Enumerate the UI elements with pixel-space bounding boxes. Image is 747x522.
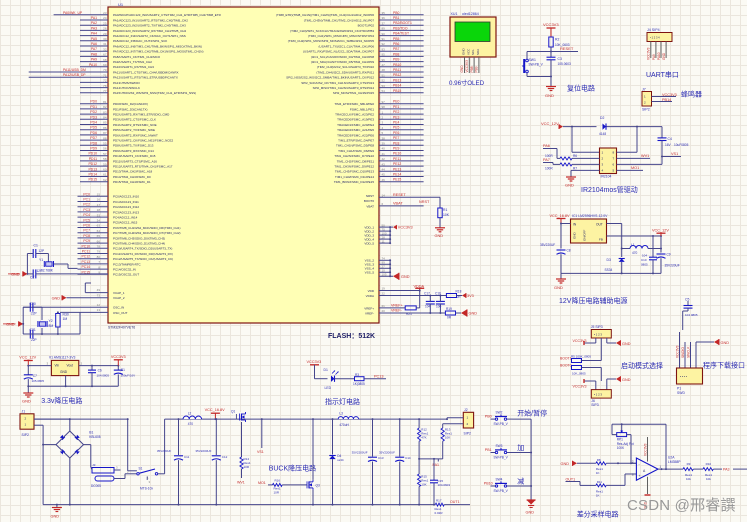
power VCC3V3 3v3 output: [111, 355, 126, 365]
svg-text:PB10: PB10: [393, 63, 401, 67]
IC V1 AMS1117 body: [51, 360, 78, 375]
svg-text:35V230UF: 35V230UF: [157, 449, 172, 453]
svg-text:32: 32: [103, 47, 107, 51]
svg-text:GND: GND: [662, 52, 666, 60]
wire pin PB8: [379, 52, 424, 56]
svg-text:VBAT: VBAT: [366, 204, 374, 208]
wire pin VREF-: [379, 309, 445, 314]
svg-text:PD3/USART2_CTS/FSMC_CLK: PD3/USART2_CTS/FSMC_CLK: [113, 118, 156, 122]
ground arrow right of R19: [461, 309, 477, 316]
svg-text:49: 49: [97, 288, 101, 292]
svg-text:VCC3V3: VCC3V3: [573, 339, 587, 343]
svg-text:90: 90: [382, 32, 386, 36]
svg-text:54: 54: [382, 89, 386, 93]
svg-text:FB: FB: [599, 238, 603, 242]
svg-text:106: 106: [436, 305, 442, 309]
svg-text:12: 12: [97, 303, 101, 307]
net label PB0: [485, 415, 492, 419]
ground reset circuit: [545, 87, 556, 99]
svg-text:VDDA: VDDA: [366, 294, 374, 298]
svg-text:SWCLK: SWCLK: [686, 346, 690, 358]
svg-text:TIM4_ETR/FSMC_NBL0/PE0: TIM4_ETR/FSMC_NBL0/PE0: [334, 102, 374, 106]
svg-text:GND: GND: [51, 515, 60, 519]
svg-text:1: 1: [660, 465, 662, 469]
wire OUT elbow: [607, 224, 622, 249]
svg-text:PB9: PB9: [393, 58, 400, 62]
svg-text:SWDIO: SWDIO: [681, 347, 685, 358]
svg-text:PA0/WKUP/ADC123_IN0/USART2_CTS: PA0/WKUP/ADC123_IN0/USART2_CTS/TIM2_CH1_…: [113, 13, 222, 17]
capacitor C15: [430, 459, 450, 506]
svg-text:VCC3V3: VCC3V3: [643, 443, 647, 456]
watermark CSDN @邢睿譔: [627, 494, 736, 515]
svg-text:TIM1_CH3/FSMC_D10/PE13: TIM1_CH3/FSMC_D10/PE13: [335, 170, 375, 174]
svg-text:VCC_12V: VCC_12V: [541, 121, 559, 126]
capacitor C1: [27, 244, 48, 259]
capacitor C2: [27, 269, 108, 280]
wire pin PE10: [379, 152, 424, 156]
svg-text:ss34: ss34: [337, 458, 344, 462]
svg-text:开始/暂停: 开始/暂停: [517, 408, 547, 417]
svg-text:J5 SIP3: J5 SIP3: [591, 325, 603, 329]
svg-text:PD0: PD0: [90, 100, 97, 104]
svg-text:PA3: PA3: [91, 26, 97, 30]
svg-text:PA3: PA3: [723, 467, 730, 471]
connector J6 pins: [596, 379, 607, 390]
wire opamp output: [658, 468, 683, 470]
svg-text:BOOT0: BOOT0: [560, 363, 572, 367]
svg-text:(I2C1_SDA)/CAN/TX/SDIO_D5/TIM4: (I2C1_SDA)/CAN/TX/SDIO_D5/TIM4_CH4/P09: [311, 60, 375, 64]
svg-text:GND: GND: [561, 462, 570, 466]
svg-text:MO1: MO1: [258, 481, 266, 485]
wire pin PD5: [80, 126, 108, 130]
capacitor C8: [540, 243, 571, 274]
connector XU1 OLED body: [450, 17, 496, 57]
svg-text:C5: C5: [685, 298, 689, 302]
svg-text:D1: D1: [324, 368, 328, 372]
svg-text:3: 3: [116, 466, 118, 470]
power flag 3V3: [462, 293, 474, 298]
wire IC pin8 to diode node: [617, 127, 638, 153]
wire pin PA0: [54, 11, 108, 15]
svg-text:66: 66: [97, 239, 101, 243]
svg-text:(TIM2_CH4)/I2C2_SDA/USART3_RX/: (TIM2_CH4)/I2C2_SDA/USART3_RX/P011: [316, 70, 374, 74]
net label MO1: [617, 166, 644, 171]
wire pin PA4: [80, 32, 108, 36]
svg-text:PD4/USART2_RTS/FSMC_NOE: PD4/USART2_RTS/FSMC_NOE: [113, 123, 157, 127]
svg-text:WV1: WV1: [237, 481, 245, 485]
wire pin VCAP_1: [85, 283, 108, 293]
svg-text:PB5: PB5: [393, 37, 400, 41]
svg-text:PB11: PB11: [393, 68, 401, 72]
wire pin PD0: [80, 100, 108, 104]
svg-text:97: 97: [382, 100, 386, 104]
svg-text:PC5: PC5: [83, 218, 90, 222]
svg-text:10K: 10K: [421, 482, 426, 486]
svg-text:PD14: PD14: [89, 173, 98, 177]
svg-text:PD13/TIM4_CH2/FSMC_A18: PD13/TIM4_CH2/FSMC_A18: [113, 170, 153, 174]
net label WV1 buck: [237, 481, 245, 485]
svg-text:21: 21: [382, 304, 386, 308]
svg-text:TIM1_CH2N/FSMC_D7/PE10: TIM1_CH2N/FSMC_D7/PE10: [334, 154, 374, 158]
svg-text:PB0: PB0: [393, 11, 400, 15]
svg-text:PC14: PC14: [82, 265, 91, 269]
buzzer wires: [652, 97, 662, 102]
svg-text:PD9/USART3_RX/FSMC_D14: PD9/USART3_RX/FSMC_D14: [113, 149, 154, 153]
wire pin PD1: [80, 105, 108, 109]
wire crystal left rail: [26, 254, 28, 275]
svg-text:VCC_16.8V: VCC_16.8V: [205, 408, 226, 412]
resistor R19: [445, 307, 461, 319]
wire pin PE9: [379, 147, 424, 151]
svg-text:PE11: PE11: [393, 157, 401, 161]
svg-text:10uF0805: 10uF0805: [674, 143, 689, 147]
svg-text:93: 93: [382, 47, 386, 51]
ground at VCAP_2: [52, 295, 67, 300]
svg-text:VBAT: VBAT: [393, 201, 403, 205]
switch SW3: [491, 444, 513, 460]
svg-text:(TIM3_CH2)/SPI1_MOSI/SPI3_MOSI: (TIM3_CH2)/SPI1_MOSI/SPI3_MOSI/I2C1_SMBA…: [288, 39, 375, 43]
wire switch to bottom node: [527, 73, 552, 78]
resistor R16: [273, 478, 308, 494]
svg-text:PE15: PE15: [393, 178, 401, 182]
label 启动模式选择: [621, 361, 663, 370]
connector J6 body: [591, 390, 611, 399]
svg-text:42: 42: [382, 157, 386, 161]
label 0.96寸OLED: [449, 79, 485, 87]
wire pin PC15: [78, 270, 109, 274]
svg-text:C13: C13: [378, 456, 384, 460]
svg-text:VCC3V3: VCC3V3: [307, 360, 322, 364]
svg-text:PC3: PC3: [83, 208, 90, 212]
ground arrow SWD: [714, 339, 729, 345]
OLED pin net labels: [460, 60, 478, 73]
svg-text:DC005: DC005: [91, 484, 101, 488]
wire R2 to reset node: [550, 47, 552, 53]
svg-text:PA10/USART1_RX/TIM1_CH3: PA10/USART1_RX/TIM1_CH3: [113, 65, 154, 69]
wire pin PA5: [80, 37, 108, 41]
ground buck bottom: [51, 504, 62, 519]
wire buck bottom rail left: [43, 504, 435, 506]
power VCC_16.8V flag: [205, 408, 226, 420]
label 加: [517, 443, 524, 452]
svg-text:C3: C3: [558, 57, 562, 61]
svg-text:12P: 12P: [39, 249, 45, 253]
wire pin PD14: [80, 173, 108, 177]
wire pin PA13: [80, 79, 108, 83]
resistor R1: [438, 208, 450, 218]
svg-text:PD11/USART3_CTS/FSMC_A16: PD11/USART3_CTS/FSMC_A16: [113, 159, 157, 163]
svg-text:PE4: PE4: [393, 121, 400, 125]
svg-text:PD5: PD5: [90, 126, 97, 130]
svg-text:J3: J3: [92, 463, 96, 467]
capacitor C7: [24, 366, 45, 387]
svg-text:PC7: PC7: [83, 229, 90, 233]
svg-text:47K: 47K: [421, 435, 426, 439]
wire switch to rail riser: [158, 419, 165, 474]
svg-text:PC13/TAMPER-RTC: PC13/TAMPER-RTC: [113, 262, 142, 266]
svg-text:GND: GND: [52, 296, 61, 300]
svg-text:37: 37: [382, 21, 386, 25]
svg-text:C6: C6: [98, 369, 102, 373]
connector J5 body: [591, 330, 611, 339]
svg-text:PC11: PC11: [82, 250, 90, 254]
svg-text:减: 减: [517, 477, 524, 486]
svg-text:R30: R30: [63, 313, 69, 317]
svg-text:53: 53: [382, 84, 386, 88]
wire VCC to IC pin1: [572, 127, 600, 153]
svg-text:SS34: SS34: [605, 268, 613, 272]
svg-text:100K: 100K: [617, 446, 625, 450]
svg-text:35V220UF: 35V220UF: [540, 243, 555, 247]
wire bridge left: [42, 444, 56, 446]
svg-text:PA1/ADC123_IN1/USART2_RTS/TIM2: PA1/ADC123_IN1/USART2_RTS/TIM2_CH2/TIM5_…: [113, 18, 188, 22]
svg-text:R16: R16: [275, 478, 281, 482]
potentiometer RP1: [617, 430, 634, 450]
svg-text:70: 70: [103, 68, 107, 72]
svg-text:26: 26: [103, 27, 107, 31]
svg-text:BOOT1/P02: BOOT1/P02: [358, 24, 375, 28]
svg-text:Q3: Q3: [316, 484, 320, 488]
label IR2104mos管驱动: [581, 185, 638, 194]
svg-text:82: 82: [103, 105, 107, 109]
svg-text:VCC3V3: VCC3V3: [543, 22, 559, 27]
svg-text:GND: GND: [545, 93, 554, 98]
crystal Y1: [39, 254, 78, 273]
svg-text:22P: 22P: [31, 338, 37, 342]
svg-text:TIM1_CH1N/FSMC_D5/PE8: TIM1_CH1N/FSMC_D5/PE8: [336, 144, 374, 148]
svg-text:TRACECLK/FSMC_A23/PE2: TRACECLK/FSMC_A23/PE2: [335, 113, 374, 117]
svg-text:PC2: PC2: [83, 203, 90, 207]
ground arrow at J6: [607, 376, 631, 382]
svg-text:BUCK降压电路: BUCK降压电路: [269, 464, 316, 473]
svg-text:PC9/TIM8_CH4/SDIO_D1/(TIM3_CH4: PC9/TIM8_CH4/SDIO_D1/(TIM3_CH4): [113, 242, 165, 246]
power VCC_12V output flag: [652, 229, 669, 237]
svg-text:PA9/USART1_TX/TIM1_CH2: PA9/USART1_TX/TIM1_CH2: [113, 60, 152, 64]
wire pin PD8: [80, 141, 108, 145]
svg-text:C7: C7: [33, 374, 37, 378]
svg-text:31: 31: [103, 42, 107, 46]
svg-text:SDA: SDA: [476, 49, 480, 55]
ground arrow at J5: [607, 340, 631, 346]
svg-text:(TIM3_CH1)/SPI1_MISO/JPD_MISO/: (TIM3_CH1)/SPI1_MISO/JPD_MISO/NTRST/P04: [308, 34, 374, 38]
svg-text:69: 69: [103, 63, 107, 67]
svg-text:PE5: PE5: [393, 126, 400, 130]
svg-text:PA6/ADC12_IN6/TIM3_CH1/TIM8_BK: PA6/ADC12_IN6/TIM3_CH1/TIM8_BKIN/SPI1_MI…: [113, 44, 202, 48]
svg-text:GND: GND: [460, 65, 464, 73]
svg-text:启动模式选择: 启动模式选择: [621, 361, 663, 370]
svg-text:VCC3V3: VCC3V3: [647, 47, 651, 60]
svg-text:SW4: SW4: [496, 477, 503, 481]
wire SW3 to common: [513, 452, 533, 487]
wire pin VCAP_2 with ground: [67, 293, 109, 298]
svg-text:48: 48: [382, 68, 386, 72]
resistor R8: [596, 458, 637, 475]
svg-text:C11: C11: [184, 455, 190, 459]
capacitor C17: [424, 291, 435, 313]
svg-text:35V2200UF: 35V2200UF: [379, 450, 395, 454]
wire pin PC12: [78, 255, 109, 259]
svg-text:VCC3V3: VCC3V3: [111, 355, 126, 359]
wire pin PB15: [379, 89, 424, 93]
svg-text:0.96寸OLED: 0.96寸OLED: [449, 79, 485, 87]
svg-text:PA3/ADC123_IN3/USART2_RX/TIM2_: PA3/ADC123_IN3/USART2_RX/TIM2_CH4/TIM5_C…: [113, 29, 186, 33]
connector P1 SWD label: [677, 387, 685, 395]
wire R1 to ground: [439, 218, 441, 228]
svg-text:104.0805: 104.0805: [685, 313, 698, 317]
net label PB14 buzzer: [661, 98, 672, 102]
svg-text:SW-PB_V: SW-PB_V: [494, 422, 509, 426]
ground at crystal Y1: [8, 271, 27, 276]
wire pin PE6: [379, 131, 424, 135]
label 蜂鸣器: [681, 90, 702, 99]
svg-text:OUT: OUT: [596, 223, 603, 227]
svg-text:PA2: PA2: [91, 21, 97, 25]
svg-text:41: 41: [382, 152, 386, 156]
svg-text:TIM1_BKIN/FSMC_D12/PE15: TIM1_BKIN/FSMC_D12/PE15: [334, 180, 375, 184]
svg-text:(USART1_TX)/I2C1_CLK/TIM4_CH1/: (USART1_TX)/I2C1_CLK/TIM4_CH1/P06: [319, 44, 375, 48]
svg-text:PD10: PD10: [89, 152, 98, 156]
svg-text:C17: C17: [424, 291, 430, 295]
svg-text:VREF-: VREF-: [391, 309, 403, 313]
svg-text:R21: R21: [406, 312, 412, 316]
svg-text:86: 86: [103, 126, 107, 130]
svg-text:GND: GND: [401, 275, 410, 279]
ground aux: [554, 273, 566, 289]
wire bridge right to DC005: [84, 445, 91, 467]
diode D2 4148: [599, 116, 606, 136]
net label PA6: [543, 144, 557, 158]
svg-text:76: 76: [103, 84, 107, 88]
svg-text:45: 45: [382, 173, 386, 177]
svg-text:96: 96: [382, 58, 386, 62]
OLED pin wires: [465, 57, 479, 73]
svg-text:R17: R17: [436, 498, 442, 502]
wire pin PE14: [379, 173, 424, 177]
svg-text:PB0: PB0: [485, 415, 492, 419]
svg-text:78: 78: [97, 245, 101, 249]
svg-text:TIM1_CH4/FSMC_D11/PE14: TIM1_CH4/FSMC_D11/PE14: [335, 175, 374, 179]
svg-text:80: 80: [97, 255, 101, 259]
svg-text:J1: J1: [22, 409, 26, 413]
svg-text:E1: E1: [121, 368, 125, 372]
wire bridge top to rail: [69, 419, 71, 431]
svg-text:PA11/USART1_CTS/TIM1_CH4/USBDM: PA11/USART1_CTS/TIM1_CH4/USBDM/CANRX: [113, 70, 179, 74]
svg-text:程序下载接口: 程序下载接口: [703, 361, 745, 370]
capacitor C13: [352, 418, 384, 506]
svg-text:PA9: PA9: [91, 58, 97, 62]
svg-text:470uH: 470uH: [339, 423, 349, 427]
svg-text:104: 104: [425, 305, 431, 309]
svg-text:SPI2_MISO/TIM1_CH2N/USART3_RTS: SPI2_MISO/TIM1_CH2N/USART3_RTS/P014: [313, 86, 375, 90]
svg-text:LED: LED: [325, 386, 332, 390]
svg-text:PE13: PE13: [393, 167, 401, 171]
svg-text:PC1/ADC123_IN11: PC1/ADC123_IN11: [113, 200, 139, 204]
svg-text:PA15/JTDI/I2S3_WS/SPI3_NSS/(TI: PA15/JTDI/I2S3_WS/SPI3_NSS/(TIM2_CH1_ETR…: [113, 91, 196, 95]
resistor R30: [56, 312, 69, 334]
connector J4 designator: [647, 28, 660, 32]
svg-text:PC3/ADC123_IN13: PC3/ADC123_IN13: [113, 210, 139, 214]
wire pin PA3: [80, 26, 108, 30]
svg-text:56: 56: [103, 147, 107, 151]
switch SW4: [491, 477, 513, 493]
resistor R3: [353, 373, 365, 386]
wire J1 pin2 down: [34, 425, 43, 504]
svg-text:R18: R18: [456, 289, 462, 293]
inductor L1: [621, 243, 662, 255]
svg-text:加: 加: [517, 443, 524, 452]
svg-text:33: 33: [97, 213, 101, 217]
svg-text:17: 17: [97, 203, 101, 207]
ground 3v3: [22, 386, 33, 403]
resistor R15: [418, 459, 429, 506]
IC V2 LM2596 designator: [572, 214, 608, 218]
svg-text:PC8/TIM8_CH3/SDIO_D0/(TIM3_CH3: PC8/TIM8_CH3/SDIO_D0/(TIM3_CH3): [113, 236, 165, 240]
wire pin PD7: [80, 136, 108, 140]
wire pin PC2: [78, 203, 109, 207]
wire pin PE5: [379, 126, 424, 130]
svg-text:PA8: PA8: [91, 52, 97, 56]
bridge rectifier B1 KBL608: [56, 431, 101, 459]
svg-text:LM358P: LM358P: [668, 460, 681, 464]
svg-text:104: 104: [642, 254, 647, 258]
svg-text:C8: C8: [567, 249, 571, 253]
wire feedback top: [622, 424, 667, 470]
svg-text:63: 63: [97, 224, 101, 228]
wire pin PB2: [379, 21, 424, 25]
wire J2 pin2: [443, 423, 464, 425]
wire bridge bottom to ground rail: [69, 458, 71, 506]
connector J4 pin wires: [651, 42, 666, 59]
net label OUT1 rail: [450, 500, 460, 504]
svg-text:PE1: PE1: [393, 105, 400, 109]
wire V1 GND pin: [65, 376, 67, 388]
LED D1: [315, 368, 339, 390]
svg-text:95: 95: [382, 53, 386, 57]
capacitor C10: [641, 236, 657, 273]
svg-text:PE8: PE8: [393, 141, 400, 145]
svg-text:0805: 0805: [641, 262, 648, 266]
svg-text:J7: J7: [642, 88, 646, 92]
wire pin PB6: [379, 42, 424, 46]
svg-text:VS1: VS1: [671, 152, 678, 156]
svg-text:VREF+: VREF+: [391, 304, 403, 308]
svg-text:89: 89: [382, 27, 386, 31]
IC U1 STM32F407VET6 body: [108, 7, 379, 323]
resistor R18: [446, 289, 462, 299]
svg-text:IR2104mos管驱动: IR2104mos管驱动: [581, 185, 638, 194]
svg-text:GND: GND: [721, 341, 730, 345]
svg-text:PD7/USART2_CK/FSMC_NE1/FSMC_NC: PD7/USART2_CK/FSMC_NE1/FSMC_NCE2: [113, 139, 173, 143]
wire pin VDD 19: [379, 287, 420, 291]
svg-text:BOOT0: BOOT0: [364, 199, 375, 203]
svg-text:104.0805: 104.0805: [97, 374, 110, 378]
svg-text:C20: C20: [30, 302, 36, 306]
switch SW1 SW-PB_V: [522, 58, 543, 73]
svg-text:VREF+: VREF+: [364, 306, 374, 310]
svg-text:NRST: NRST: [366, 194, 374, 198]
connector J1 body: [20, 414, 34, 429]
wire SW4 to common: [513, 485, 533, 500]
wire pin PC7: [78, 229, 109, 233]
svg-text:10K_0805: 10K_0805: [572, 371, 586, 375]
svg-text:C2: C2: [30, 276, 34, 280]
connector J5 designator: [591, 325, 603, 329]
svg-text:RESET: RESET: [393, 193, 406, 197]
IC V1 AMS1117 designator: [49, 356, 76, 360]
svg-text:J4 SIP4: J4 SIP4: [647, 28, 660, 32]
svg-text:VCC: VCC: [466, 48, 470, 55]
svg-text:PC8: PC8: [83, 234, 90, 238]
